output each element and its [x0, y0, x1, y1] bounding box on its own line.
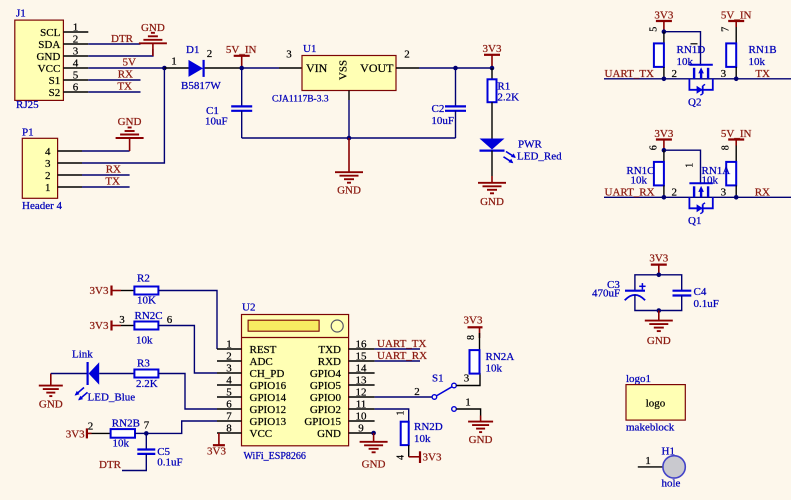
svg-text:3: 3: [721, 68, 727, 80]
power label 3V3 (Q1 section): [654, 128, 673, 140]
wire RN2B to U2.VCC: [135, 432, 146, 434]
svg-text:4: 4: [73, 58, 79, 70]
svg-text:2.2K: 2.2K: [497, 91, 519, 103]
svg-text:J1: J1: [16, 8, 26, 20]
net label RX (J1): [118, 69, 133, 81]
svg-text:12: 12: [356, 387, 367, 399]
wire gate of Q2: [664, 32, 701, 66]
svg-text:3V3: 3V3: [423, 452, 442, 464]
power port 5V_IN (top): [234, 56, 250, 68]
transistor Q2 pin 2 number: [672, 68, 678, 80]
svg-text:3V3: 3V3: [483, 43, 502, 55]
svg-text:GPIO14: GPIO14: [250, 392, 287, 404]
svg-text:470uF: 470uF: [592, 288, 620, 300]
ground label GND at J1 pin3: [141, 22, 165, 34]
svg-text:10uF: 10uF: [205, 115, 228, 127]
node junction RN1B bottom: [734, 77, 739, 82]
pin RN1A bottom: [735, 185, 737, 197]
svg-text:Header 4: Header 4: [22, 200, 63, 212]
capacitor C2 designator: [432, 103, 445, 115]
wire 3V3 to RN2B: [92, 432, 111, 434]
hole H1 name hole: [662, 478, 681, 490]
wire DTR from J1 pin2: [88, 43, 140, 45]
IC U2 pin names: [250, 344, 342, 440]
transistor Q1 symbol: [689, 183, 712, 213]
svg-text:U2: U2: [242, 302, 255, 314]
svg-text:LED_Red: LED_Red: [517, 151, 562, 163]
ground at U1 (bars): [335, 172, 363, 183]
pin U1.2: [396, 49, 419, 69]
transistor Q1 pin 3 number: [721, 186, 727, 198]
LED Link name LED_Blue: [88, 392, 136, 404]
wire junction to C5: [145, 433, 147, 449]
svg-text:GND: GND: [362, 459, 386, 471]
diode D1 value B5817W: [181, 80, 221, 92]
wire C1 to ground rail: [241, 111, 243, 138]
svg-text:5: 5: [649, 27, 660, 32]
net label TX (P1): [105, 176, 120, 188]
capacitor C3 symbol (polar): [625, 283, 646, 300]
switch S1 pin 1 number: [465, 397, 471, 409]
node junction U2 GND: [371, 431, 376, 436]
ground at U1 (stem): [348, 138, 350, 172]
logo1 name makeblock: [626, 422, 675, 434]
svg-text:TX: TX: [755, 68, 770, 80]
svg-text:SCL: SCL: [40, 27, 60, 39]
regulator U1 pin name VSS (rotated): [338, 60, 350, 80]
svg-text:3V3: 3V3: [649, 253, 668, 265]
svg-text:2: 2: [88, 421, 94, 433]
regulator U1 designator: [303, 43, 316, 55]
svg-text:hole: hole: [662, 478, 681, 490]
connector P1 body: [22, 138, 57, 198]
svg-text:0.1uF: 0.1uF: [694, 298, 719, 310]
wire RX from J1 pin5: [88, 79, 140, 81]
transistor Q2 pin 3 number: [721, 68, 727, 80]
net label RX (P1): [106, 164, 121, 176]
node junction 5V / P1 feed: [162, 66, 167, 71]
power label 5V_IN (top): [226, 44, 257, 56]
svg-text:GND: GND: [480, 196, 504, 208]
node junction C3/C4 bottom: [657, 308, 662, 313]
svg-text:1: 1: [45, 182, 51, 194]
hole H1 pin 1: [638, 455, 663, 467]
diode D1 symbol: [189, 60, 204, 77]
ground at S1 (stem): [480, 416, 482, 422]
svg-text:7: 7: [721, 27, 732, 32]
svg-text:TXD: TXD: [318, 344, 341, 356]
transistor Q1 designator: [688, 215, 701, 227]
wire D1 cathode to 5V_IN node: [205, 67, 242, 69]
svg-text:2: 2: [207, 48, 213, 60]
connector J1 designator: [16, 8, 26, 20]
wire ground rail: [242, 137, 456, 139]
svg-text:S1: S1: [432, 373, 444, 385]
svg-text:S1: S1: [49, 75, 61, 87]
svg-text:10k: 10k: [486, 363, 503, 375]
resistor R3 designator: [137, 358, 150, 370]
net label UART_RX: [605, 186, 655, 198]
svg-text:0.1uF: 0.1uF: [157, 457, 182, 469]
capacitor C1 symbol: [231, 106, 252, 110]
svg-text:1: 1: [226, 339, 232, 351]
svg-text:P1: P1: [22, 127, 34, 139]
capacitor C5 designator: [157, 446, 170, 458]
resistor RN1A pin number 8: [721, 145, 732, 150]
power label 3V3 (C3/C4): [649, 253, 668, 265]
pin U1 VSS: [348, 91, 350, 101]
svg-text:3: 3: [226, 363, 232, 375]
wire LED PWR to ground: [491, 151, 493, 176]
LED PWR name LED_Red: [517, 151, 562, 163]
svg-text:GND: GND: [337, 185, 361, 197]
net label TX (J1): [117, 81, 132, 93]
wire UART_TX from U2.TXD: [375, 348, 420, 350]
switch S1 lever: [436, 387, 452, 396]
resistor R2 designator: [137, 273, 150, 285]
resistor RN2C pin 3 number: [119, 314, 125, 326]
svg-text:2: 2: [73, 34, 79, 46]
node junction 3V3 / R1: [490, 66, 495, 71]
svg-text:10k: 10k: [702, 175, 719, 187]
svg-text:REST: REST: [250, 344, 277, 356]
pin RN1D bottom: [663, 67, 665, 79]
IC U2 body: [242, 315, 349, 446]
svg-text:C2: C2: [432, 103, 445, 115]
resistor RN1A value 10k: [702, 175, 719, 187]
svg-text:GPIO4: GPIO4: [310, 368, 342, 380]
resistor RN2D value 10k: [414, 433, 431, 445]
svg-text:10k: 10k: [631, 175, 648, 187]
power label 3V3 (RN2A): [464, 315, 483, 327]
wire 3V3 to R2: [121, 290, 134, 292]
svg-text:5: 5: [73, 70, 79, 82]
IC U2 name WiFi_ESP8266: [244, 451, 306, 462]
svg-text:LED_Blue: LED_Blue: [88, 392, 136, 404]
wire R1 to LED PWR: [491, 102, 493, 138]
net label UART_TX: [377, 338, 427, 350]
svg-text:TX: TX: [117, 81, 132, 93]
wire GND from J1 pin3: [88, 49, 153, 56]
wire UART_TX row: [604, 78, 791, 80]
ground at P1 pin4 (flipped up): [116, 128, 144, 152]
svg-text:1: 1: [465, 397, 471, 409]
power port 3V3 (U2 VCC, downward): [213, 433, 225, 445]
svg-text:GND: GND: [39, 399, 63, 411]
svg-text:1: 1: [73, 22, 79, 34]
connector P1 pins: [45, 146, 82, 194]
ground label GND at S1: [469, 434, 493, 446]
resistor RN1B designator: [749, 44, 777, 56]
ground label GND at P1 pin4: [118, 116, 142, 128]
power port 3V3 (Q2 section): [656, 21, 672, 32]
power label 5V_IN (Q2 section): [721, 10, 752, 22]
transistor Q2 designator: [688, 96, 701, 108]
svg-text:2: 2: [404, 49, 410, 61]
wire R3 to U2.GPIO12: [158, 374, 217, 410]
svg-text:14: 14: [356, 363, 368, 375]
wire S1 pin3 to RN2A: [456, 373, 480, 386]
svg-text:2.2K: 2.2K: [136, 378, 158, 390]
node junction C2 tap: [453, 66, 458, 71]
node junction RN1C bottom: [662, 195, 667, 200]
svg-text:3V3: 3V3: [654, 128, 673, 140]
net label TX: [755, 68, 770, 80]
svg-text:3V3: 3V3: [90, 285, 109, 297]
resistor RN2C value 10k: [136, 335, 153, 347]
pin RN1B bottom: [735, 67, 737, 79]
svg-text:R3: R3: [137, 358, 150, 370]
wire U1 VOUT to 3V3 node: [419, 67, 492, 69]
resistor RN2C pin 6 number: [167, 314, 173, 326]
svg-text:2: 2: [672, 186, 678, 198]
svg-text:4: 4: [396, 455, 407, 460]
svg-text:2: 2: [226, 351, 232, 363]
power label 3V3 (U2 VCC): [207, 446, 226, 458]
diode D1 pin2 number: [207, 48, 213, 60]
pin U1.3: [279, 49, 302, 69]
power label 3V3 (at U1 out): [483, 43, 502, 55]
diode D1 designator: [186, 44, 199, 56]
wire RN2B junction to U2 pin7: [146, 421, 217, 433]
resistor R1: [488, 79, 497, 102]
ground label GND at LED Link: [39, 399, 63, 411]
svg-text:1: 1: [685, 163, 696, 168]
pin RN2D bottom: [408, 445, 410, 457]
power port 3V3 (RN2C): [112, 321, 122, 331]
resistor RN1D: [654, 43, 664, 67]
wire U1 VSS to ground rail: [348, 100, 350, 138]
node junction RN1A bottom: [734, 195, 739, 200]
power label 5V_IN (Q1 section): [721, 128, 752, 140]
capacitor C5 value 0.1uF: [157, 457, 182, 469]
svg-text:3V3: 3V3: [90, 320, 109, 332]
hole H1 designator: [662, 446, 675, 458]
svg-text:GPIO16: GPIO16: [250, 380, 287, 392]
hole H1 circle: [663, 456, 685, 478]
capacitor C2 symbol: [445, 106, 466, 110]
svg-text:5V_IN: 5V_IN: [721, 128, 752, 140]
svg-text:8: 8: [226, 423, 232, 435]
svg-text:DTR: DTR: [111, 33, 134, 45]
svg-text:1: 1: [645, 455, 651, 467]
svg-text:3V3: 3V3: [66, 429, 85, 441]
logo1 designator: [626, 373, 651, 385]
svg-text:WiFi_ESP8266: WiFi_ESP8266: [244, 451, 306, 462]
svg-text:UART_RX: UART_RX: [605, 186, 655, 198]
resistor RN2C designator: [135, 310, 163, 322]
svg-text:5V_IN: 5V_IN: [226, 44, 257, 56]
svg-text:ADC: ADC: [250, 356, 273, 368]
power label 3V3 (RN2B): [66, 429, 85, 441]
svg-text:SDA: SDA: [38, 39, 60, 51]
capacitor C1 designator: [206, 105, 219, 117]
svg-text:2: 2: [672, 68, 678, 80]
resistor RN2D designator: [414, 421, 443, 433]
power label 3V3 (R2): [90, 285, 109, 297]
wire C5 to DTR: [122, 454, 146, 471]
svg-text:GND: GND: [141, 22, 165, 34]
power port 5V_IN (Q2 section): [728, 21, 744, 27]
IC U2 module graphic circle: [331, 320, 343, 332]
svg-text:10k: 10k: [749, 56, 766, 68]
svg-text:10k: 10k: [677, 56, 694, 68]
pin RN2A top: [479, 333, 481, 350]
node junction RN1C top: [662, 148, 667, 153]
wire gate of Q1: [664, 150, 701, 184]
capacitor C4 designator: [694, 286, 707, 298]
ground at U2 (bars): [360, 442, 388, 453]
svg-text:GND: GND: [469, 434, 493, 446]
ground label GND at U1: [337, 185, 361, 197]
svg-text:2: 2: [45, 170, 51, 182]
capacitor C3 value 470uF: [592, 288, 620, 300]
svg-text:3: 3: [286, 49, 292, 61]
svg-text:CJA1117B-3.3: CJA1117B-3.3: [272, 95, 329, 105]
svg-text:10k: 10k: [414, 433, 431, 445]
switch S1 designator: [432, 373, 444, 385]
svg-text:1: 1: [171, 56, 177, 68]
svg-text:GPIO2: GPIO2: [310, 404, 341, 416]
resistor R3 value 2.2K: [136, 378, 158, 390]
power port 3V3 (at U1 out): [484, 55, 500, 68]
svg-text:13: 13: [356, 375, 368, 387]
resistor RN2D pin 1 number: [396, 411, 407, 416]
resistor RN2D pin 4 number: [396, 455, 407, 460]
resistor RN1D designator: [677, 44, 706, 56]
svg-text:RX: RX: [118, 69, 133, 81]
node junction RN1D bottom: [662, 77, 667, 82]
pin RN1C bottom: [663, 185, 665, 197]
power port 3V3 (C3/C4): [651, 265, 667, 275]
pin RN1D top: [663, 32, 665, 44]
pin RN1A top: [735, 146, 737, 162]
svg-text:GPIO5: GPIO5: [310, 380, 342, 392]
resistor R2 value 10K: [137, 295, 156, 307]
resistor RN2A value 10k: [486, 363, 503, 375]
resistor RN1B pin number 7: [721, 27, 732, 32]
svg-text:B5817W: B5817W: [181, 80, 221, 92]
ground at LED Link (stem): [50, 374, 52, 386]
pin R1 top: [491, 68, 493, 79]
svg-text:10K: 10K: [137, 295, 156, 307]
svg-text:16: 16: [356, 339, 368, 351]
svg-text:6: 6: [649, 145, 660, 150]
svg-text:4: 4: [226, 375, 232, 387]
svg-text:RN2C: RN2C: [135, 310, 163, 322]
ground at C3/C4 (stem): [658, 311, 660, 321]
resistor RN1A: [726, 162, 736, 186]
node junction RN1D top: [662, 29, 667, 34]
svg-text:4: 4: [45, 146, 51, 158]
svg-text:VSS: VSS: [338, 60, 350, 80]
svg-text:10k: 10k: [136, 335, 153, 347]
resistor RN1D value 10k: [677, 56, 694, 68]
power label 3V3 (Q2 section): [654, 10, 673, 22]
svg-text:RN2D: RN2D: [414, 421, 443, 433]
svg-text:CH_PD: CH_PD: [250, 368, 285, 380]
wire 5V from J1 pin4: [88, 67, 164, 69]
resistor RN2B designator: [112, 418, 140, 430]
svg-text:TX: TX: [105, 176, 120, 188]
svg-text:11: 11: [356, 399, 367, 411]
svg-text:3: 3: [45, 158, 51, 170]
resistor RN2A: [470, 350, 480, 374]
power port 3V3 (R2): [112, 286, 122, 296]
switch S1 pin 3 number: [464, 373, 470, 385]
wire C3/C4 top rail: [635, 275, 682, 291]
resistor R1 designator: [497, 81, 510, 93]
power label 3V3 (RN2C): [90, 320, 109, 332]
resistor RN2B value 10k: [113, 438, 130, 450]
resistor RN1A designator: [702, 165, 731, 177]
svg-text:VCC: VCC: [250, 428, 273, 440]
wire TX from J1 pin6: [88, 91, 140, 93]
wire U2.GND to ground: [374, 432, 375, 434]
wire R2 to U2.REST: [158, 291, 217, 350]
svg-text:UART_TX: UART_TX: [377, 338, 427, 350]
connector J1 pins 1-6: [63, 22, 88, 94]
transistor Q2 gate pin 1 number: [691, 43, 698, 45]
svg-text:5V_IN: 5V_IN: [721, 10, 752, 22]
transistor Q1 pin 2 number: [672, 186, 678, 198]
net label UART_TX: [605, 68, 655, 80]
connector J1 body: [15, 20, 64, 100]
svg-text:RN1D: RN1D: [677, 44, 706, 56]
svg-text:RN2B: RN2B: [112, 418, 140, 430]
ground label GND at U2: [362, 459, 386, 471]
node junction 5V_IN: [239, 66, 244, 71]
resistor RN2B: [111, 429, 135, 438]
power port 3V3 (Q1 section): [656, 140, 672, 151]
resistor RN1B: [726, 43, 736, 67]
svg-text:GND: GND: [647, 335, 671, 347]
IC U2 module graphic divider: [242, 337, 349, 339]
connector P1 designator: [22, 127, 34, 139]
regulator U1 pin name VIN: [306, 61, 328, 75]
capacitor C2 value 10uF: [431, 115, 454, 127]
wire C2 to ground rail: [455, 111, 457, 138]
resistor RN2A pin 8 number: [466, 335, 477, 340]
svg-text:logo: logo: [646, 398, 666, 410]
ground label GND at C3/C4: [647, 335, 671, 347]
svg-text:10: 10: [356, 411, 368, 423]
svg-text:UART_TX: UART_TX: [605, 68, 655, 80]
LED PWR designator: [518, 139, 543, 151]
LED Link light arrows: [75, 388, 88, 401]
svg-text:8: 8: [466, 335, 477, 340]
regulator U1 value CJA1117B-3.3: [272, 95, 329, 105]
svg-text:3V3: 3V3: [207, 446, 226, 458]
svg-text:RJ25: RJ25: [16, 99, 39, 111]
svg-text:8: 8: [721, 145, 732, 150]
power port 3V3 (RN2D, sideways): [409, 451, 420, 463]
svg-text:5V: 5V: [123, 57, 137, 69]
svg-text:Q2: Q2: [688, 96, 701, 108]
node junction C3/C4 top: [657, 273, 662, 278]
wire C3/C4 bottom rail: [635, 295, 682, 311]
svg-text:RXD: RXD: [318, 356, 341, 368]
transistor Q2 symbol: [689, 65, 712, 95]
ground at LED Link (bars): [39, 386, 63, 397]
svg-text:U1: U1: [303, 43, 316, 55]
resistor RN2C: [134, 322, 158, 330]
wire 5V node to D1 anode: [164, 67, 188, 69]
svg-text:GPIO0: GPIO0: [310, 392, 342, 404]
resistor RN2B pin 2 number: [88, 421, 94, 433]
power port 5V_IN (Q1 section): [728, 140, 744, 146]
pin RN1C top: [663, 150, 665, 162]
